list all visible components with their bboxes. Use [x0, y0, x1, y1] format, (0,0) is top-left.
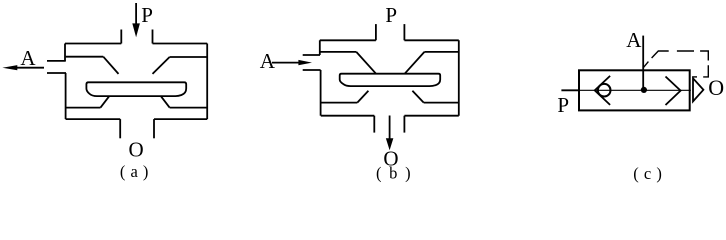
check valve ball circle (c) [598, 84, 611, 97]
junction dot (c) [641, 87, 647, 93]
body left wall upper (a) [64, 44, 66, 62]
svg-text:O: O [708, 75, 724, 100]
arrow O (b) flow out [386, 116, 394, 151]
valve disc (b) [340, 74, 441, 86]
arrow A (a) flow out [2, 65, 44, 70]
flow arrow chevron (c) [666, 77, 681, 106]
body left wall lower (b) [320, 70, 322, 116]
body right wall (a) [206, 44, 208, 120]
lower seat shelf left (b) [321, 102, 358, 104]
port P right wall (b) [403, 24, 405, 40]
svg-text:P: P [141, 3, 153, 27]
lower seat diagonal left (b) [357, 91, 368, 103]
body top edge left (b) [320, 39, 376, 41]
svg-text:( b ): ( b ) [376, 163, 413, 182]
lower seat diagonal right (a) [161, 96, 170, 108]
port P left wall (a) [120, 30, 122, 44]
body top edge right (b) [404, 39, 458, 41]
exhaust triangle O (c) [693, 78, 703, 101]
line A (c) [642, 36, 644, 91]
svg-text:P: P [385, 3, 397, 27]
port O left wall (a) [119, 119, 121, 138]
upper seat diagonal right (a) [153, 57, 170, 74]
lower seat shelf right (b) [424, 102, 459, 104]
body bottom edge left (b) [321, 115, 375, 117]
body right wall (b) [458, 40, 460, 115]
lower seat shelf left (a) [66, 107, 101, 109]
svg-text:O: O [129, 138, 144, 162]
port P right wall (a) [152, 30, 154, 44]
lower seat shelf right (a) [170, 107, 208, 109]
valve body rect (c) [579, 70, 690, 110]
upper seat diagonal left (a) [103, 57, 118, 74]
line P (c) [561, 89, 579, 91]
body left wall lower (a) [65, 73, 67, 119]
port A top lip (b) [303, 54, 320, 56]
port P left wall (b) [375, 24, 377, 40]
top-left step wall (b) [319, 40, 321, 55]
lower seat diagonal left (a) [101, 96, 110, 108]
body bottom edge right (a) [154, 118, 207, 120]
port A bottom lip (a) [47, 72, 66, 74]
flow line (c) [580, 89, 691, 91]
svg-text:( a ): ( a ) [120, 162, 149, 181]
upper seat diagonal left (b) [356, 52, 376, 74]
lower seat diagonal right (b) [412, 91, 423, 103]
upper seat shelf right (a) [170, 56, 207, 58]
upper seat diagonal right (b) [405, 52, 425, 74]
body top edge right (a) [153, 43, 208, 45]
body top edge left (a) [65, 43, 121, 45]
check valve seat chevron (c) [595, 76, 610, 105]
port O right wall (b) [403, 116, 405, 133]
upper seat shelf right (b) [424, 51, 458, 53]
body bottom edge left (a) [66, 118, 121, 120]
port O right wall (a) [153, 119, 155, 138]
svg-text:( c ): ( c ) [633, 164, 662, 183]
svg-text:P: P [557, 93, 569, 117]
pilot dashed line (c) [644, 51, 709, 77]
svg-text:A: A [626, 28, 642, 52]
valve disc (a) [86, 82, 186, 96]
upper seat shelf left (a) [66, 56, 104, 58]
port A top lip (a) [47, 60, 66, 62]
body bottom edge right (b) [404, 115, 458, 117]
svg-text:A: A [20, 46, 36, 70]
svg-text:A: A [260, 49, 276, 73]
port A bottom lip (b) [303, 69, 321, 71]
arrow P (a) flow into valve [132, 3, 140, 37]
upper seat shelf left (b) [321, 51, 357, 53]
arrow A (b) flow in [272, 60, 312, 65]
port O left wall (b) [373, 116, 375, 133]
